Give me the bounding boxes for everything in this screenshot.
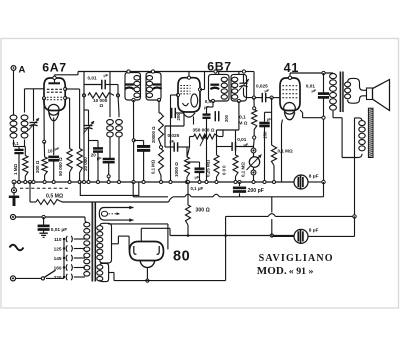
coil IF1 primary [134, 76, 140, 81]
41 base nipple [284, 112, 295, 120]
bus junctions [18, 181, 21, 184]
secondary HV winding [97, 226, 103, 231]
HV centre tap wire [112, 243, 119, 245]
hop 0,5M line up [169, 197, 175, 202]
svg-text:0 0 0: 0 0 0 [221, 165, 226, 175]
wire bus to cap2 [271, 235, 273, 238]
capacitor 200 pF diode B [214, 111, 216, 121]
switch [16, 277, 42, 279]
capacitor trimmer IF2 [239, 82, 247, 84]
tube 6B7 envelope [178, 78, 200, 112]
HV winding frame [100, 223, 112, 263]
svg-text:20000 Ω: 20000 Ω [151, 126, 156, 143]
svg-text:0,1: 0,1 [13, 141, 20, 146]
wire rectifier B+ [225, 216, 227, 280]
svg-text:50 000 Ω: 50 000 Ω [58, 157, 63, 176]
terminal mains N [11, 276, 16, 281]
hop second bus over 300ohm lead [185, 194, 191, 197]
svg-text:200 Ω: 200 Ω [35, 160, 40, 173]
wire primary bottom [332, 111, 334, 118]
svg-text:145: 145 [54, 256, 62, 261]
terminal A antenna [11, 66, 16, 71]
svg-text:0,01 μF: 0,01 μF [51, 227, 68, 233]
41 grids [282, 85, 297, 87]
svg-text:200 pF: 200 pF [248, 188, 264, 194]
output transformer core [340, 72, 343, 113]
41 screen wire [300, 110, 303, 113]
svg-text:1 MΩ: 1 MΩ [13, 163, 18, 175]
svg-text:μF: μF [104, 73, 109, 78]
riser anode [83, 72, 85, 85]
AVC dashed wire [20, 187, 70, 189]
6B7 nodes [187, 76, 190, 79]
heater winding frame [100, 263, 109, 281]
wire 80 plate right [108, 223, 168, 225]
resistor 0,1 MOhm diode load [233, 155, 238, 177]
6A7 anode circle [48, 104, 59, 115]
6B7 grid stub [183, 113, 185, 126]
wire 6B7 to 41 grid [254, 97, 262, 99]
electrolytic 8 uF first [294, 175, 308, 189]
heater return [109, 272, 114, 274]
svg-text:8 μF: 8 μF [309, 173, 319, 178]
capacitor cathode uF [195, 167, 205, 169]
wire 6B7 plate right [200, 89, 205, 91]
svg-text:1000 Ω: 1000 Ω [174, 162, 179, 177]
ground symbol mains [39, 232, 47, 234]
coil IF2 primary [221, 77, 227, 82]
wire 6B7 left grid [171, 94, 179, 96]
IF transformer 1 unit B frame [146, 73, 161, 100]
svg-text:6A7: 6A7 [42, 61, 66, 75]
capacitor 200 pF diode A [207, 106, 214, 108]
AC symbol [10, 245, 24, 251]
wire IF1B down [158, 100, 160, 113]
capacitor IF1 secondary [153, 83, 162, 85]
svg-text:« 91 »: « 91 » [289, 266, 314, 277]
svg-text:0,25 MΩ: 0,25 MΩ [205, 159, 210, 177]
secondary heater winding [97, 265, 103, 270]
41 cathode lead [282, 120, 283, 125]
svg-text:200: 200 [224, 114, 229, 122]
6A7 base nipple [49, 113, 59, 121]
svg-text:0,1 MΩ: 0,1 MΩ [151, 159, 156, 174]
wire secondary to speaker top [348, 78, 367, 90]
speaker field coil [359, 121, 365, 126]
capacitor IF2 primary [210, 84, 219, 86]
svg-text:8 μF: 8 μF [309, 227, 319, 232]
wire 41 plate top [288, 76, 291, 79]
selector common [63, 239, 65, 278]
svg-text:μF: μF [265, 88, 270, 93]
6A7 grids [47, 88, 63, 90]
second bus [133, 182, 135, 197]
output transformer primary [330, 74, 337, 79]
svg-text:SAVIGLIANO: SAVIGLIANO [259, 253, 334, 264]
capacitor IF1 primary [125, 83, 134, 85]
electrolytic 8 uF second [294, 229, 308, 243]
hop second bus [213, 194, 219, 197]
ring AVC tap [132, 139, 135, 142]
svg-text:M Ω: M Ω [239, 120, 248, 125]
field coil top hook [355, 118, 363, 121]
arrow wiper [200, 135, 206, 146]
top bus wire [78, 71, 207, 73]
power transformer primary [85, 217, 87, 222]
svg-text:MOD.: MOD. [257, 265, 287, 277]
coil L4 oscillator [116, 120, 123, 125]
coil IF2 secondary [232, 77, 238, 82]
page frame [1, 39, 399, 309]
coil L1 antenna primary [10, 115, 17, 120]
HT bus [170, 235, 294, 237]
wire screen via [89, 140, 99, 142]
svg-text:220: 220 [54, 275, 62, 280]
svg-text:μF: μF [55, 146, 60, 151]
vertical filter link [271, 197, 273, 213]
6B7 base nipple [183, 113, 195, 117]
svg-text:110: 110 [54, 237, 62, 242]
tube 41 envelope [280, 78, 300, 111]
wire antenna down [13, 71, 15, 116]
svg-text:Ω: Ω [100, 103, 104, 108]
capacitor 0,1 uF IF bypass [134, 140, 144, 142]
capacitor 0,01 uF mains [38, 225, 50, 228]
IF2 bottom wires [211, 99, 214, 102]
svg-text:160: 160 [54, 265, 62, 270]
svg-text:125: 125 [54, 246, 62, 251]
variable capacitor gang 2 [85, 125, 93, 127]
capacitor 200 pF grid 6B7 [171, 108, 173, 118]
vertical feed from top wire [247, 71, 255, 73]
rectifier filament U loop with arrows [99, 208, 133, 221]
wire L1 to RC [13, 140, 15, 147]
wire 80 filament B+ [140, 228, 142, 241]
tube 80 base circle [140, 260, 154, 267]
node IF1 B [151, 70, 154, 73]
node IF2 B [238, 72, 240, 75]
6A7 side nodes [42, 97, 45, 100]
svg-text:200: 200 [176, 113, 181, 121]
capacitor 200 pF bus [233, 187, 246, 190]
winding loop top [101, 211, 107, 216]
coil IF1 secondary [146, 76, 152, 81]
wire 6B7 top [188, 72, 190, 77]
6B7 anode [191, 94, 198, 107]
wire to field coil feed [333, 117, 342, 119]
6B7 grids [180, 85, 190, 87]
potentiometer tone [249, 157, 259, 167]
svg-text:μF: μF [312, 88, 317, 93]
tube 6A7 envelope [44, 78, 65, 111]
svg-text:0,1 μF: 0,1 μF [191, 186, 204, 191]
U link under bus [80, 182, 139, 195]
svg-text:20: 20 [91, 153, 97, 158]
power transformer core [92, 203, 95, 282]
svg-text:0,025: 0,025 [168, 133, 180, 138]
svg-text:0,5 MΩ: 0,5 MΩ [46, 193, 63, 199]
wire diode load [238, 101, 240, 130]
svg-text:A: A [19, 65, 26, 76]
resistor 10 000 Ohm [82, 94, 85, 97]
wire AVC down [83, 95, 85, 182]
coil L2 antenna secondary [21, 115, 28, 120]
41 anode circle [284, 103, 296, 115]
output transformer secondary [345, 82, 351, 87]
IF transformer 2 unit B frame [231, 74, 247, 101]
6B7 cathode stub [193, 117, 195, 125]
ground bus [14, 181, 294, 183]
svg-text:0,1: 0,1 [239, 114, 246, 119]
wire hop B+ over cap line [268, 214, 275, 217]
node IF2 A [218, 72, 220, 75]
tube 80 electrodes [134, 246, 137, 254]
svg-text:0,1 MΩ: 0,1 MΩ [240, 162, 245, 177]
svg-text:350 000 Ω: 350 000 Ω [193, 127, 215, 132]
svg-text:300 Ω: 300 Ω [196, 207, 210, 213]
IF transformer 2 unit A frame [209, 74, 230, 101]
capacitor 250 cathode 41 [271, 98, 273, 113]
6A7 top cap [48, 82, 60, 84]
line B+ to field [226, 215, 269, 217]
svg-text:10: 10 [48, 148, 54, 153]
wire 6A7 cathode down [43, 98, 45, 141]
svg-text:80: 80 [173, 249, 190, 265]
wire top cap to bus top [54, 75, 56, 76]
wire secondary to speaker bottom [348, 96, 367, 103]
wire 80 filament to heater line [146, 267, 148, 280]
variable capacitor tuning gang 1 [33, 89, 35, 121]
speaker field magnet [368, 108, 373, 157]
svg-text:0,01: 0,01 [88, 75, 98, 80]
trimmer bottom curve to AF wire [244, 88, 253, 98]
wire 80 plate left [118, 235, 129, 237]
coil L3 oscillator [107, 120, 114, 125]
tube 80 envelope [130, 242, 164, 261]
speaker [367, 88, 373, 100]
IF transformer 1 unit A frame [125, 73, 141, 100]
wire grid 6A7 [25, 88, 45, 90]
terminal T ground [12, 180, 16, 184]
capacitor padder [103, 158, 115, 160]
dashed adjuster arrow [109, 213, 116, 215]
svg-text:0,1 MΩ: 0,1 MΩ [278, 148, 293, 153]
node IF1 A [127, 70, 130, 73]
terminal mains L [11, 215, 16, 220]
